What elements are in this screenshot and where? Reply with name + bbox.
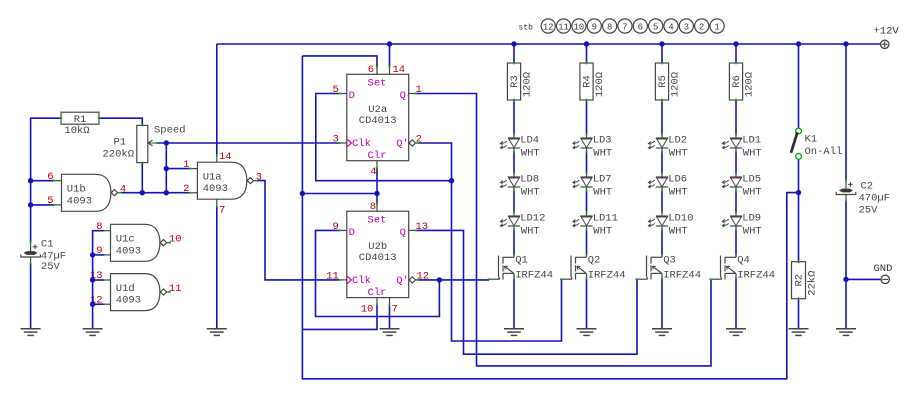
svg-text:10kΩ: 10kΩ xyxy=(64,125,89,137)
capacitor C2 xyxy=(836,179,890,217)
svg-text:120Ω: 120Ω xyxy=(744,72,756,97)
svg-text:8: 8 xyxy=(370,201,376,213)
LED LD2 xyxy=(648,135,668,152)
svg-text:Q2: Q2 xyxy=(588,255,601,267)
svg-text:11: 11 xyxy=(558,22,569,32)
svg-text:U1d: U1d xyxy=(116,283,135,295)
svg-text:120Ω: 120Ω xyxy=(522,72,534,97)
svg-text:7: 7 xyxy=(622,22,627,32)
svg-text:3: 3 xyxy=(332,134,338,146)
svg-text:9: 9 xyxy=(592,22,597,32)
svg-text:7: 7 xyxy=(392,304,398,316)
wire U2b pin7 to ground xyxy=(389,305,391,329)
LED LD4 xyxy=(500,135,520,152)
resistor R5 xyxy=(655,62,681,102)
wire K1 bottom to R2 xyxy=(798,159,800,261)
svg-text:6: 6 xyxy=(638,22,643,32)
ground xyxy=(577,329,597,336)
capacitor C1 xyxy=(21,239,66,274)
wire GND terminal xyxy=(846,278,881,280)
wire LED column 2 xyxy=(586,44,588,329)
nand gate U1c xyxy=(96,221,181,261)
MOSFET Q2 xyxy=(562,256,587,280)
svg-text:10: 10 xyxy=(169,234,182,246)
svg-text:1: 1 xyxy=(714,22,719,32)
svg-text:Clk: Clk xyxy=(352,138,371,150)
svg-text:1: 1 xyxy=(416,84,422,96)
svg-text:3: 3 xyxy=(684,22,689,32)
ground xyxy=(836,329,856,336)
svg-text:Clr: Clr xyxy=(368,287,387,299)
svg-text:6: 6 xyxy=(47,171,53,183)
svg-text:stb: stb xyxy=(519,23,534,32)
svg-text:LD1: LD1 xyxy=(742,135,761,147)
svg-text:22kΩ: 22kΩ xyxy=(807,271,819,296)
LED LD7 xyxy=(573,174,593,191)
wire C2 from rail xyxy=(845,44,847,181)
LED LD6 xyxy=(648,174,668,191)
LED LD11 xyxy=(573,213,593,230)
ground xyxy=(504,329,524,336)
svg-text:LD7: LD7 xyxy=(593,174,612,186)
wire set/clr link xyxy=(302,193,377,195)
svg-text:Set: Set xyxy=(368,78,387,90)
svg-text:13: 13 xyxy=(416,221,429,233)
svg-text:LD11: LD11 xyxy=(593,213,618,225)
svg-text:R5: R5 xyxy=(657,75,669,88)
wire LED column 4 xyxy=(735,44,737,329)
wire U2b Clr pin10 xyxy=(302,305,377,330)
svg-text:12: 12 xyxy=(417,271,430,283)
wire U1b pin6 xyxy=(31,180,55,182)
wire U2a pin14 from rail xyxy=(389,44,391,67)
nand gate U1d xyxy=(90,270,182,310)
resistor R3 xyxy=(507,62,533,102)
wire U2b D pin9 feedback from Q' xyxy=(316,230,440,316)
svg-text:D: D xyxy=(349,90,355,102)
ground xyxy=(652,329,672,336)
svg-text:3: 3 xyxy=(256,171,262,183)
svg-text:14: 14 xyxy=(219,151,232,163)
ground xyxy=(21,329,41,336)
svg-text:WHT: WHT xyxy=(669,225,688,237)
svg-text:2: 2 xyxy=(699,22,704,32)
svg-text:CD4013: CD4013 xyxy=(359,115,397,127)
svg-text:14: 14 xyxy=(393,64,406,76)
svg-text:LD9: LD9 xyxy=(742,213,761,225)
wire LED column 1 xyxy=(513,44,515,329)
wire set/clr vertical bus xyxy=(302,56,798,379)
svg-text:R2: R2 xyxy=(793,274,805,287)
resistor R2 xyxy=(792,260,819,300)
svg-text:11: 11 xyxy=(326,271,339,283)
wire K1 top from rail xyxy=(798,44,800,128)
svg-text:IRFZ44: IRFZ44 xyxy=(515,270,553,282)
svg-text:IRFZ44: IRFZ44 xyxy=(663,270,701,282)
MOSFET Q4 xyxy=(711,256,736,280)
svg-text:WHT: WHT xyxy=(743,186,762,198)
wire U1c/U1d input net to ground xyxy=(90,231,104,329)
svg-text:Clr: Clr xyxy=(368,150,387,162)
wire U2a Q' pin2 to Q2 gate xyxy=(418,143,562,341)
svg-text:8: 8 xyxy=(607,22,612,32)
wire U1a pin1 xyxy=(166,168,190,170)
svg-text:LD12: LD12 xyxy=(520,213,545,225)
terminal GND xyxy=(874,263,893,284)
LED LD1 xyxy=(722,135,742,152)
svg-text:U1a: U1a xyxy=(203,172,222,184)
nand gate U1a xyxy=(183,159,262,199)
svg-text:WHT: WHT xyxy=(521,225,540,237)
svg-text:LD3: LD3 xyxy=(593,135,612,147)
svg-text:On-All: On-All xyxy=(805,146,843,158)
wire U2a Clr pin4 to U2b Set pin8 xyxy=(376,168,378,205)
ground xyxy=(726,329,746,336)
svg-text:Q': Q' xyxy=(396,275,409,287)
wire P1 bottom to pin4 net xyxy=(141,163,143,193)
svg-text:GND: GND xyxy=(874,263,893,275)
svg-text:CD4013: CD4013 xyxy=(359,252,397,264)
svg-text:4093: 4093 xyxy=(116,245,141,257)
svg-text:6: 6 xyxy=(368,64,374,76)
svg-text:WHT: WHT xyxy=(743,147,762,159)
wire U2b Q' pin12 to Q1 gate xyxy=(418,279,489,281)
wire U1a pin7 to ground xyxy=(216,206,218,329)
svg-text:4: 4 xyxy=(120,184,126,196)
svg-text:4093: 4093 xyxy=(203,183,228,195)
svg-text:120Ω: 120Ω xyxy=(594,72,606,97)
svg-text:Q: Q xyxy=(400,90,406,102)
svg-text:WHT: WHT xyxy=(521,186,540,198)
svg-text:12: 12 xyxy=(543,22,554,32)
wire U1b pin5 xyxy=(31,204,55,206)
svg-text:U1b: U1b xyxy=(67,184,86,196)
wire U2a D pin5 feedback from Q' xyxy=(316,94,452,181)
ground xyxy=(380,329,400,336)
svg-text:9: 9 xyxy=(332,221,338,233)
svg-text:25V: 25V xyxy=(41,261,61,273)
U2b pin numbers xyxy=(326,201,429,316)
svg-text:120Ω: 120Ω xyxy=(670,72,682,97)
resistor R6 xyxy=(729,62,755,102)
ground xyxy=(207,329,227,336)
svg-text:7: 7 xyxy=(219,204,225,216)
svg-text:Set: Set xyxy=(368,214,387,226)
U2a pin numbers xyxy=(332,64,422,178)
svg-text:WHT: WHT xyxy=(669,186,688,198)
wire U2a Set pin6 xyxy=(302,56,377,67)
svg-text:Q3: Q3 xyxy=(663,255,676,267)
svg-text:25V: 25V xyxy=(859,205,879,217)
svg-text:R6: R6 xyxy=(731,75,743,88)
wire C1 to ground xyxy=(30,264,32,329)
terminal +12V xyxy=(874,26,900,49)
wire U2a Q pin1 to Q4 gate xyxy=(416,94,711,366)
svg-text:IRFZ44: IRFZ44 xyxy=(737,270,775,282)
svg-text:1: 1 xyxy=(183,159,189,171)
svg-text:WHT: WHT xyxy=(669,147,688,159)
wire wiper branch down xyxy=(165,143,167,193)
svg-text:Speed: Speed xyxy=(154,125,186,137)
svg-text:4093: 4093 xyxy=(116,295,141,307)
svg-text:4093: 4093 xyxy=(67,195,92,207)
svg-text:WHT: WHT xyxy=(521,147,540,159)
svg-text:4: 4 xyxy=(668,22,673,32)
LED LD12 xyxy=(500,213,520,230)
svg-text:2: 2 xyxy=(416,134,422,146)
svg-text:LD2: LD2 xyxy=(668,135,687,147)
ground xyxy=(789,329,809,336)
svg-text:C1: C1 xyxy=(41,239,54,251)
svg-text:5: 5 xyxy=(653,22,658,32)
resistor R1 xyxy=(60,112,101,137)
MOSFET Q3 xyxy=(637,256,662,280)
nand gate U1b xyxy=(47,171,126,211)
LED LD10 xyxy=(648,213,668,230)
ground xyxy=(83,329,103,336)
svg-text:IRFZ44: IRFZ44 xyxy=(588,270,626,282)
strobe header stb xyxy=(519,19,725,33)
wire U2b Q pin13 to Q3 gate xyxy=(416,230,637,354)
wire +12V top rail xyxy=(217,43,881,45)
svg-text:5: 5 xyxy=(332,84,338,96)
wire LED column 3 xyxy=(661,44,663,329)
svg-text:K1: K1 xyxy=(805,134,818,146)
svg-text:Q': Q' xyxy=(396,138,409,150)
flip-flop U2b xyxy=(339,203,420,306)
svg-text:5: 5 xyxy=(47,195,53,207)
resistor R4 xyxy=(580,62,606,102)
wire R1 left / U1b input net xyxy=(31,118,61,242)
svg-text:+12V: +12V xyxy=(874,26,900,38)
svg-text:4: 4 xyxy=(370,166,376,178)
svg-text:WHT: WHT xyxy=(743,225,762,237)
svg-text:D: D xyxy=(349,227,355,239)
wire U1a pin14 from rail xyxy=(216,44,218,155)
LED LD8 xyxy=(500,174,520,191)
svg-text:2: 2 xyxy=(183,183,189,195)
LED LD9 xyxy=(722,213,742,230)
svg-text:10: 10 xyxy=(574,22,585,32)
wire P1 wiper to U2a Clk pin3 xyxy=(157,142,340,144)
potentiometer P1 xyxy=(103,125,158,162)
wire R1 right to P1 top xyxy=(99,118,142,125)
wire U1a out pin3 to U2b Clk pin11 xyxy=(257,181,340,280)
switch K1 xyxy=(791,128,842,159)
flip-flop U2a xyxy=(339,66,420,169)
svg-text:WHT: WHT xyxy=(593,186,612,198)
LED LD5 xyxy=(722,174,742,191)
svg-text:470µF: 470µF xyxy=(859,193,891,205)
svg-text:Q1: Q1 xyxy=(515,255,528,267)
svg-text:10: 10 xyxy=(361,304,374,316)
svg-text:U1c: U1c xyxy=(116,234,135,246)
svg-text:P1: P1 xyxy=(114,137,127,149)
svg-text:Q4: Q4 xyxy=(737,255,750,267)
svg-text:LD4: LD4 xyxy=(520,135,539,147)
LED LD3 xyxy=(573,135,593,152)
wire C2 to ground xyxy=(845,201,847,329)
wire R2 to ground xyxy=(798,299,800,329)
MOSFET Q1 xyxy=(489,256,514,280)
svg-text:WHT: WHT xyxy=(593,147,612,159)
svg-text:LD8: LD8 xyxy=(520,174,539,186)
svg-text:220kΩ: 220kΩ xyxy=(103,149,135,161)
svg-text:LD5: LD5 xyxy=(742,174,761,186)
svg-text:WHT: WHT xyxy=(593,225,612,237)
svg-text:LD6: LD6 xyxy=(668,174,687,186)
svg-text:Q: Q xyxy=(400,227,406,239)
svg-text:11: 11 xyxy=(169,283,182,295)
svg-text:R3: R3 xyxy=(509,75,521,88)
svg-text:LD10: LD10 xyxy=(668,213,693,225)
svg-text:C2: C2 xyxy=(861,181,874,193)
wire U1b out pin4 to U1a pin2 xyxy=(121,192,190,194)
svg-text:R4: R4 xyxy=(581,75,593,88)
svg-text:Clk: Clk xyxy=(352,275,371,287)
